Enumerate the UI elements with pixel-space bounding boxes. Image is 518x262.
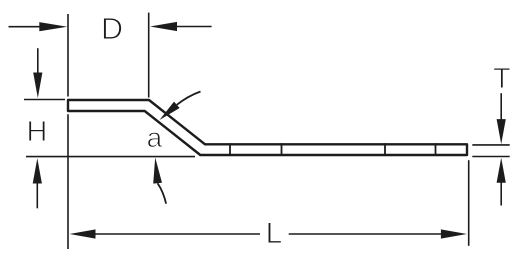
svg-text:L: L xyxy=(266,217,283,250)
svg-text:a: a xyxy=(147,122,163,153)
svg-text:H: H xyxy=(27,116,48,148)
svg-text:T: T xyxy=(493,63,510,95)
svg-text:D: D xyxy=(101,12,123,46)
